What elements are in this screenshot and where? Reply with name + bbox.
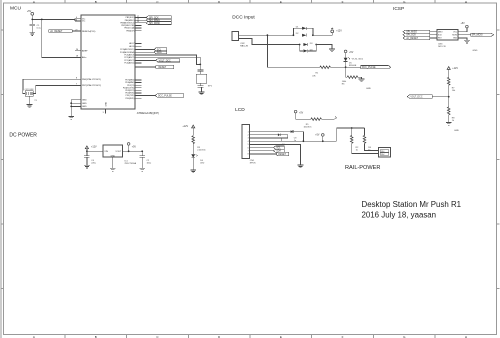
global label SPI_MOSI (ICSP) (458, 33, 494, 37)
wire XTAL2 (36, 86, 75, 91)
MCU right pin names (120, 17, 135, 100)
svg-text:PB7(XTAL2/TOSC2): PB7(XTAL2/TOSC2) (82, 84, 101, 87)
wire (448, 69, 450, 77)
svg-text:7: 7 (76, 84, 77, 86)
diode D2 (296, 33, 307, 37)
svg-text:AVcc: AVcc (82, 56, 87, 59)
junction (sounder node) (199, 64, 201, 66)
wire (192, 144, 194, 155)
power +12V (DC) (85, 146, 88, 149)
svg-text:PB3(MOSI/OC2): PB3(MOSI/OC2) (120, 22, 134, 24)
junction (DCC pulse node) (345, 66, 347, 68)
svg-text:VT-XL 3mm: VT-XL 3mm (352, 58, 364, 60)
wire (448, 85, 450, 107)
svg-text:RA2: RA2 (381, 153, 385, 156)
connector CN4 (379, 147, 391, 157)
svg-text:+12V: +12V (336, 30, 342, 33)
svg-text:VOLT_DCC: VOLT_DCC (410, 97, 422, 99)
svg-text:PC5(ADC5/SCL): PC5(ADC5/SCL) (120, 48, 135, 51)
svg-text:+5V: +5V (27, 10, 32, 13)
resistor R4 (363, 128, 379, 151)
global label SPI_SCK (ICSP) (403, 33, 437, 37)
svg-text:MCU: MCU (10, 6, 21, 12)
svg-text:4: 4 (248, 141, 249, 143)
wire R5 out (321, 117, 336, 120)
svg-text:GND: GND (82, 103, 87, 105)
wire input (87, 149, 103, 152)
CN1 pin stubs (250, 132, 253, 154)
svg-text:RAIL-POWER: RAIL-POWER (345, 165, 380, 171)
svg-text:RESET: RESET (159, 67, 167, 69)
wire regulator gnd (112, 157, 114, 168)
svg-text:PD7(AIN1): PD7(AIN1) (125, 79, 135, 82)
svg-text:PD6(AIN0): PD6(AIN0) (125, 81, 135, 84)
MCU pin stubs left (75, 31, 81, 106)
resistor R6 (342, 67, 362, 85)
svg-text:GND: GND (473, 50, 478, 52)
svg-text:20: 20 (76, 49, 78, 51)
wire output (123, 150, 143, 152)
svg-text:MISO: MISO (438, 31, 443, 33)
junction (+5V/C1) (31, 19, 33, 21)
junction (D3 right) (315, 44, 317, 46)
connector CN3 (437, 30, 458, 40)
svg-text:F: F (342, 0, 344, 4)
wire row1 + diode C8 (253, 130, 304, 142)
svg-text:+5V: +5V (132, 147, 137, 149)
junction (AVcc tap) (41, 19, 43, 21)
ground (C4) (84, 165, 90, 168)
junction (row4/C8) (303, 140, 305, 142)
svg-text:GND: GND (111, 155, 116, 157)
svg-text:8: 8 (76, 77, 77, 79)
wire rail up (337, 128, 365, 141)
svg-text:VOLT_DCC: VOLT_DCC (159, 60, 171, 62)
svg-text:PC1(ADC1): PC1(ADC1) (124, 59, 134, 62)
global label SCL (142, 48, 167, 52)
svg-text:Vcc: Vcc (82, 21, 85, 23)
junction (C4) (86, 150, 88, 152)
svg-text:2.2kOhm: 2.2kOhm (197, 149, 206, 151)
global label SPI_SCK (142, 16, 172, 20)
resistor R8 (447, 107, 450, 115)
global label VOLT_DCC (divider) (407, 95, 448, 99)
svg-text:PB5(SCK): PB5(SCK) (126, 17, 135, 19)
svg-text:+12V: +12V (91, 146, 97, 149)
power +5V (MCU) (31, 12, 34, 19)
svg-text:GND: GND (105, 101, 107, 106)
wire PC2 to sounder (142, 57, 201, 64)
svg-text:2: 2 (248, 135, 249, 137)
MCU bottom pin stub (105, 109, 107, 113)
junction (+5V row4) (322, 140, 324, 142)
power +5V (DC) (127, 143, 136, 152)
svg-text:8POS: 8POS (250, 163, 256, 165)
svg-text:8: 8 (248, 154, 249, 156)
ground (bridge) (329, 49, 335, 52)
ground (divider) (446, 122, 452, 125)
svg-text:ADC6: ADC6 (129, 45, 134, 48)
svg-text:+12V: +12V (182, 125, 188, 128)
svg-text:LCD: LCD (235, 107, 245, 113)
junction (GND pins) (70, 102, 72, 104)
svg-text:VOUT: VOUT (115, 151, 122, 153)
svg-text:+5V: +5V (349, 52, 354, 54)
global label SDA (LCD) (253, 149, 284, 153)
power +12V (divider) (447, 67, 450, 70)
pin numbers (76, 16, 139, 114)
junction (bridge right) (312, 34, 314, 36)
svg-text:GND: GND (453, 38, 458, 40)
wire to R5 (296, 113, 311, 119)
wire to +12V (313, 33, 332, 35)
svg-text:RA1: RA1 (381, 150, 385, 153)
svg-text:PC2(ADC2): PC2(ADC2) (124, 56, 134, 59)
svg-text:100Ohm: 100Ohm (304, 126, 312, 128)
svg-text:18: 18 (76, 56, 78, 58)
svg-text:VIN: VIN (104, 151, 108, 153)
svg-text:ICSP: ICSP (393, 6, 404, 12)
global label DCC_PULSE (MCU) (142, 94, 184, 98)
wire CN2 pin1 (239, 34, 294, 36)
LED D6 (191, 154, 204, 170)
svg-text:LED: LED (200, 163, 205, 165)
MCU U1 box (81, 15, 135, 109)
junction (D3 left) (299, 44, 301, 46)
svg-text:uC_RESET: uC_RESET (406, 38, 418, 40)
global label SDA (142, 51, 167, 55)
power +5V (LCD mid) (315, 134, 324, 142)
ground (C2) (139, 168, 145, 171)
svg-text:15: 15 (137, 21, 139, 23)
svg-text:+5V: +5V (315, 134, 320, 136)
global label RESET (LCD) (253, 152, 289, 156)
global label RESET (MCU) (142, 65, 174, 69)
svg-text:17: 17 (137, 16, 139, 18)
svg-text:RESET: RESET (278, 154, 286, 156)
ground (R6) (359, 79, 365, 82)
junction (+5V out) (128, 150, 130, 152)
wire GND pins (71, 100, 81, 117)
global label SCL (LCD) (253, 146, 284, 150)
ground (IC1) (110, 168, 116, 171)
diode D1 (293, 27, 313, 36)
global label uC_RESET (49, 30, 81, 33)
power +5V (LCD top) (294, 110, 303, 114)
svg-text:MOSI: MOSI (452, 34, 457, 36)
svg-text:PB6(XTAL1/TOSC1): PB6(XTAL1/TOSC1) (82, 78, 101, 81)
svg-text:RAIL-IN: RAIL-IN (240, 45, 248, 48)
wire CN2 pin2 (239, 39, 300, 45)
wire sense line (267, 35, 320, 67)
regulator IC1 (103, 145, 137, 165)
wire XTAL1 (23, 79, 75, 90)
svg-text:GND: GND (82, 100, 87, 102)
svg-text:SPI_MOSI: SPI_MOSI (149, 23, 160, 25)
connector CN1 (242, 125, 250, 159)
svg-text:ATMEGA48(QFP): ATMEGA48(QFP) (137, 111, 159, 115)
svg-text:5: 5 (248, 144, 249, 146)
MCU left pin names (82, 18, 101, 108)
power +12V (LED) (192, 125, 195, 128)
global label DCC_PULSE (DCC) (346, 66, 391, 70)
wire row4 main (253, 140, 337, 142)
ground (MCU) (68, 116, 74, 119)
power +12V (DCC) (331, 28, 334, 33)
svg-text:E: E (280, 0, 282, 4)
svg-text:+5V: +5V (299, 112, 304, 114)
svg-text:H: H (465, 0, 467, 4)
svg-text:SPI_MOSI: SPI_MOSI (472, 35, 483, 37)
wire CN3 vcc (458, 28, 467, 32)
svg-text:78DCT05SA: 78DCT05SA (124, 162, 136, 165)
svg-text:PB0(ICP): PB0(ICP) (126, 30, 134, 32)
svg-text:GND: GND (454, 130, 459, 132)
power +5V (DCC) (344, 50, 353, 54)
svg-text:uC_RESET: uC_RESET (50, 30, 63, 33)
wire row5 to ground (253, 144, 301, 165)
resistor R1 (320, 66, 331, 69)
svg-text:7: 7 (248, 151, 249, 153)
ground (Y1) (27, 105, 33, 108)
capacitor C2 (139, 150, 152, 168)
ground (LED) (190, 170, 196, 173)
wire to ground (bridge) (316, 45, 332, 49)
capacitor C4 (84, 151, 97, 165)
diode D4 (300, 45, 317, 53)
svg-text:RESETa(PC6): RESETa(PC6) (82, 31, 96, 33)
ground (SP1) (199, 92, 205, 95)
global label uC_RESET (ICSP) (403, 36, 437, 40)
resistor R3 (192, 136, 195, 144)
svg-text:6: 6 (76, 19, 77, 21)
svg-text:ISP-CN: ISP-CN (438, 46, 446, 48)
svg-text:DCC_PULSE: DCC_PULSE (158, 95, 172, 97)
capacitor C1 (30, 19, 36, 32)
MCU pin stubs right (135, 18, 141, 99)
svg-text:PB1(OC1A): PB1(OC1A) (124, 27, 134, 30)
sounder SP1 (196, 64, 207, 92)
svg-text:2016 July 18, yaasan: 2016 July 18, yaasan (362, 211, 437, 220)
svg-text:A: A (33, 0, 35, 4)
global label SPI_MISO (142, 19, 172, 23)
ground (C1) (29, 33, 35, 36)
crystal Y1 (23, 91, 36, 105)
svg-text:CSTLS8M: CSTLS8M (25, 89, 34, 91)
svg-text:AREF: AREF (82, 50, 88, 53)
svg-text:PC4(ADC4/SDA): PC4(ADC4/SDA) (120, 51, 135, 54)
wire (192, 128, 194, 136)
svg-text:PD0(RXD): PD0(RXD) (125, 98, 134, 100)
junction (sense tap) (267, 34, 269, 36)
LED D5 (344, 53, 364, 67)
ground (CN3) (464, 40, 470, 43)
svg-text:DC POWER: DC POWER (9, 133, 37, 139)
wire row2 + diode C7 (253, 133, 288, 146)
wire AVcc (42, 19, 81, 57)
wire CN3 gnd (458, 38, 467, 40)
global label SPI_MOSI (142, 21, 172, 25)
wire R1 to node (330, 66, 345, 68)
svg-text:B: B (95, 0, 97, 4)
svg-text:3: 3 (248, 138, 249, 140)
global label SPI_MISO (ICSP) (403, 30, 437, 33)
svg-text:B1100E: B1100E (349, 65, 357, 67)
wire Vcc rail (32, 19, 81, 21)
connector CN2 (232, 32, 239, 41)
svg-text:DCC_PULSE: DCC_PULSE (362, 67, 376, 69)
svg-text:GND: GND (82, 106, 87, 108)
junction (bridge left) (293, 34, 295, 36)
svg-text:GND: GND (366, 88, 371, 90)
svg-text:6: 6 (248, 147, 249, 149)
power +5V (ICSP) (461, 23, 469, 28)
svg-text:PC0(ADC0): PC0(ADC0) (124, 62, 134, 65)
resistor R2 (350, 128, 378, 154)
svg-text:ADC7: ADC7 (129, 42, 134, 45)
wire (448, 115, 450, 123)
wire PC3 to sounder (142, 55, 201, 65)
svg-text:SDA: SDA (157, 51, 162, 54)
svg-text:DCC Input: DCC Input (232, 15, 255, 21)
junction (rail R2) (351, 127, 353, 129)
diode D3 (303, 43, 313, 46)
svg-text:+5V: +5V (461, 23, 466, 25)
resistor R7 (447, 77, 450, 85)
resistor R5 (311, 118, 322, 121)
svg-text:1: 1 (248, 131, 249, 133)
ground (LCD) (298, 165, 304, 168)
junction (divider) (448, 96, 450, 98)
svg-text:+12V: +12V (452, 67, 458, 70)
svg-text:Desktop Station Mr Push R1: Desktop Station Mr Push R1 (362, 200, 462, 209)
svg-text:5: 5 (103, 112, 104, 114)
global label VOLT_DCC (MCU) (142, 59, 180, 63)
